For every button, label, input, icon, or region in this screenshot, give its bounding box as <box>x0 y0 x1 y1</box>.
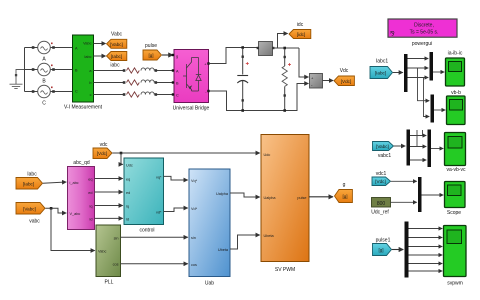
mux bar 2 <box>430 52 434 81</box>
wire rail to V+ <box>299 48 308 77</box>
wire vdc rail to svpwm <box>112 152 259 154</box>
node cap bottom <box>241 109 244 112</box>
svg-text:ia-ib-ic: ia-ib-ic <box>448 51 463 57</box>
powergui block <box>388 19 457 47</box>
wire id <box>95 217 123 219</box>
node resistor bottom <box>283 109 286 112</box>
node resistor top <box>283 47 286 50</box>
svg-text:Iabc1: Iabc1 <box>376 59 388 65</box>
wire p4 <box>409 254 443 256</box>
control block <box>124 158 164 234</box>
wire p5 <box>409 263 443 265</box>
V-I Measurement block <box>64 35 103 111</box>
svg-text:eq: eq <box>126 178 130 182</box>
from tag Iabc1 <box>370 59 393 79</box>
AC source A <box>25 41 73 62</box>
wire p2 <box>409 237 443 239</box>
svg-text:V-I Measurement: V-I Measurement <box>64 105 103 111</box>
wire e1 <box>410 135 426 137</box>
wire source bus <box>24 48 26 92</box>
svg-text:Iabc: Iabc <box>27 172 37 178</box>
svg-text:cos: cos <box>113 263 119 267</box>
scope va-vb-vc <box>445 133 466 174</box>
svg-text:[Vabc]: [Vabc] <box>23 206 36 211</box>
svg-text:vabc1: vabc1 <box>378 153 392 159</box>
svg-text:Vabc: Vabc <box>111 32 123 38</box>
wire d3 <box>408 77 429 79</box>
wire pulse out <box>309 196 333 198</box>
svg-text:vd*: vd* <box>156 211 162 215</box>
svg-text:Udc_ref: Udc_ref <box>371 210 389 216</box>
wire stub s2 <box>422 130 424 136</box>
wire iq <box>95 205 123 207</box>
svg-text:sin: sin <box>114 237 119 241</box>
node vdc split <box>120 152 123 155</box>
svg-text:Vd*: Vd* <box>191 207 198 211</box>
svg-text:PLL: PLL <box>105 280 114 286</box>
svg-text:Ubeta: Ubeta <box>218 248 229 252</box>
svg-text:pulse1: pulse1 <box>376 238 391 244</box>
wire pulse1 to demux7 <box>392 249 403 251</box>
wire tap v1 <box>418 68 430 101</box>
svg-text:vabc: vabc <box>29 219 40 225</box>
svg-text:C: C <box>176 93 179 97</box>
svg-text:[Iabc]: [Iabc] <box>375 71 386 76</box>
wire d1 <box>408 58 429 60</box>
svg-text:id: id <box>90 217 93 221</box>
RL branch c <box>94 92 175 97</box>
svg-text:Udc: Udc <box>126 163 133 167</box>
svg-text:g: g <box>343 182 346 188</box>
wire p6 <box>409 270 443 272</box>
svg-text:id: id <box>126 217 129 221</box>
svg-text:ed: ed <box>126 191 130 195</box>
svg-text:vdc: vdc <box>100 142 108 148</box>
AC source B <box>25 63 73 84</box>
wire Ubeta <box>230 235 260 249</box>
wire eq <box>95 178 123 180</box>
svg-text:Iabc: Iabc <box>84 55 91 59</box>
wire vq* <box>164 176 188 180</box>
svg-text:control: control <box>139 228 154 234</box>
svg-text:[g]: [g] <box>148 53 153 58</box>
svg-text:Udc: Udc <box>264 153 271 157</box>
svg-text:abc_qd: abc_qd <box>73 160 90 166</box>
wire p1 <box>409 228 443 230</box>
wire mux6 to scope4 <box>422 194 444 196</box>
svg-text:[Vabc]: [Vabc] <box>110 42 123 47</box>
svg-text:Uab: Uab <box>205 281 214 287</box>
wire bridge - bottom rail <box>209 84 309 111</box>
svg-text:Ubeta: Ubeta <box>264 234 275 238</box>
svg-text:c: c <box>90 93 92 97</box>
wire vabc1 to demux4 <box>394 145 405 147</box>
svg-text:svpwm: svpwm <box>447 281 463 287</box>
svg-text:Universal Bridge: Universal Bridge <box>173 106 210 112</box>
wire vd* <box>164 208 188 212</box>
Uab block <box>189 169 230 287</box>
wire e3 <box>410 159 426 161</box>
svg-text:b: b <box>89 81 91 85</box>
wire I block to resistor node <box>273 47 300 49</box>
svg-text:iq: iq <box>90 205 93 209</box>
wire Vabc to abc_qd <box>45 208 66 213</box>
svg-text:⅋: ⅋ <box>390 31 395 38</box>
SV PWM block <box>261 135 309 274</box>
svg-text:[Vdc]: [Vdc] <box>97 151 107 156</box>
mux bar 3 <box>431 95 435 123</box>
svg-text:[Iabc]: [Iabc] <box>23 181 34 186</box>
svg-text:powergui: powergui <box>412 41 432 47</box>
from tag vabc1 <box>373 142 394 160</box>
wire Iabc1 to demux <box>393 72 403 74</box>
AC source C <box>25 85 73 106</box>
svg-text:g: g <box>176 55 178 59</box>
from tag Vabc (bottom left) <box>16 203 45 225</box>
svg-text:pulse: pulse <box>297 196 306 200</box>
svg-text:iq: iq <box>126 205 129 209</box>
RL branch a <box>94 68 175 73</box>
wire V block out <box>323 80 334 82</box>
voltage measurement block <box>310 74 323 89</box>
svg-text:[idc]: [idc] <box>297 32 305 37</box>
svg-text:Ualpha: Ualpha <box>216 192 229 196</box>
wire mux2 to scope1 <box>433 71 444 73</box>
svg-text:V_abc: V_abc <box>70 212 81 216</box>
wire tap v2 <box>424 78 430 117</box>
node vabc split <box>50 207 53 210</box>
svg-text:[Iabc]: [Iabc] <box>111 54 122 59</box>
svg-text:Ualpha: Ualpha <box>264 196 277 200</box>
wire 800 to mux6 <box>391 201 417 203</box>
wire pulse to bridge <box>162 54 173 56</box>
svg-text:800: 800 <box>377 201 386 207</box>
svg-text:[g]: [g] <box>378 248 383 253</box>
svg-text:iabc: iabc <box>110 63 120 69</box>
wire Vabc out <box>94 43 106 45</box>
svg-text:cos: cos <box>191 263 197 267</box>
wire Iabc out <box>94 55 106 57</box>
wire idc tap <box>278 34 288 49</box>
from tag vdc1 <box>372 171 391 186</box>
wire cos <box>121 263 188 265</box>
wire ed <box>95 191 123 193</box>
wire mux3 to scope2 <box>434 109 445 111</box>
svg-text:vb-b: vb-b <box>451 90 461 96</box>
svg-text:i_abc: i_abc <box>69 181 78 185</box>
current measurement block <box>257 42 275 56</box>
wire p3 <box>409 246 443 248</box>
PLL block <box>96 225 121 286</box>
wire vdc to control <box>121 153 123 164</box>
scope svpwm <box>444 226 467 287</box>
svg-text:ed: ed <box>88 191 92 195</box>
capacitor C1 <box>237 49 249 111</box>
demux bar 7 <box>405 222 409 278</box>
wire sin <box>121 236 188 238</box>
demux bar 4 <box>407 130 411 166</box>
svg-text:Discrete,: Discrete, <box>414 23 434 29</box>
svg-text:Scope: Scope <box>447 210 461 216</box>
resistor R1 (dc link) <box>282 49 291 110</box>
svg-text:vdc1: vdc1 <box>376 171 387 177</box>
goto tag Iabc <box>107 52 127 69</box>
wire vdc1 to mux6 <box>391 180 417 182</box>
abc_qd block <box>68 160 95 230</box>
from tag g (pulse) <box>143 43 162 60</box>
svg-text:C: C <box>75 89 78 93</box>
goto tag Vdc <box>334 68 354 86</box>
svg-text:C: C <box>42 101 46 107</box>
RL branch b <box>94 80 175 85</box>
node cap top <box>241 46 244 49</box>
svg-text:[Vdc]: [Vdc] <box>341 79 351 84</box>
svg-text:Ts = 5e-05 s.: Ts = 5e-05 s. <box>410 30 439 36</box>
scope vb-b <box>447 90 466 125</box>
wire stub s1 <box>416 130 418 147</box>
svg-text:[Vabc]: [Vabc] <box>376 144 389 149</box>
wire e2 <box>410 146 426 148</box>
universal bridge U1 <box>172 50 210 112</box>
svg-text:Vq*: Vq* <box>191 179 198 183</box>
scope Scope <box>445 182 466 217</box>
from tag vdc (bottom) <box>93 142 112 159</box>
mux bar 5 <box>428 130 432 168</box>
wire Ualpha <box>230 193 260 197</box>
scope ia-ib-ic <box>446 51 465 87</box>
svg-text:vq*: vq* <box>156 175 162 179</box>
from tag pulse1 <box>373 238 392 256</box>
wire Iabc to abc_qd <box>43 182 66 183</box>
demux bar 1 <box>404 54 408 92</box>
svg-text:idc: idc <box>297 22 304 28</box>
from tag Iabc (bottom left) <box>16 172 43 190</box>
goto tag Vabc <box>107 32 127 49</box>
svg-text:va-vb-vc: va-vb-vc <box>447 167 466 173</box>
svg-text:Vabc: Vabc <box>83 42 91 46</box>
wire mux5 to scope3 <box>431 148 443 150</box>
wire Vabc to PLL <box>51 208 95 250</box>
goto tag idc <box>289 22 311 39</box>
svg-text:SV PWM: SV PWM <box>275 267 295 273</box>
svg-text:eq: eq <box>88 178 92 182</box>
ground <box>10 70 25 89</box>
mux bar 6 <box>418 177 422 212</box>
wire d2 <box>408 67 429 69</box>
goto tag g <box>335 182 353 203</box>
svg-text:sin: sin <box>191 236 196 240</box>
svg-text:pulse: pulse <box>145 43 157 49</box>
svg-text:Vdc: Vdc <box>340 68 349 74</box>
svg-text:[g]: [g] <box>342 194 347 199</box>
svg-text:Vabc: Vabc <box>98 250 106 254</box>
wire bridge + to dc rail <box>209 48 259 64</box>
svg-text:[Vdc]: [Vdc] <box>375 179 385 184</box>
constant 800 Udc_ref <box>371 198 390 216</box>
